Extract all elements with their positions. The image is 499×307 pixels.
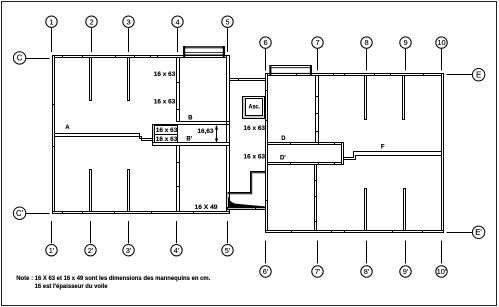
svg-text:16 x 63: 16 x 63 [156,127,178,134]
svg-text:16,63: 16,63 [198,129,215,135]
wall A jog from left wall [55,134,153,141]
grid bubble C [13,52,49,64]
grid bubble 3 [123,16,134,52]
grid bubble E' [447,226,485,238]
svg-text:1: 1 [49,17,53,26]
right block bottom wall [266,231,444,233]
grid bubble 8 [361,37,372,71]
elevator shaft Asc. [243,97,265,119]
interior wall under axis 2 [90,58,92,101]
corridor B top wall [153,122,230,125]
link wall between blocks top [230,79,266,81]
interior wall above axis 9' [404,189,406,231]
right block balcony parapet [269,65,312,76]
grid bubble 6' [260,241,271,278]
corridor B bottom wall [153,143,230,146]
room label B' [186,137,192,143]
grid bubble 5' [222,221,233,256]
svg-text:C: C [17,54,23,63]
svg-text:1': 1' [49,246,55,255]
grid bubble 2 [86,16,97,52]
corridor D top wall [268,143,344,145]
wall F with jog [344,152,442,160]
interior wall under axis 3 [128,58,130,101]
label 16x63 between blocks upper [244,125,266,132]
svg-text:16 x 63: 16 x 63 [244,154,266,161]
grid bubble 9' [400,241,411,278]
interior wall under axis 4 [177,58,180,122]
wall joint ticks [53,56,424,233]
svg-text:Note : 16 X 63 et 16 x 49 sont: Note : 16 X 63 et 16 x 49 sont les dimen… [16,276,210,282]
room label F [381,145,385,151]
grid bubble 1 [46,16,57,52]
svg-text:3: 3 [126,17,130,26]
label 16x63 between blocks lower [244,154,266,161]
right block top wall [266,74,444,76]
svg-text:16 x 63: 16 x 63 [244,125,266,132]
svg-text:9': 9' [403,267,409,276]
grid bubble 9 [400,37,411,71]
svg-text:F: F [381,145,385,151]
room label A [65,125,70,131]
corridor D bottom wall [268,163,344,165]
label 16x63 upper left block [154,71,176,78]
right block right wall [442,74,444,233]
grid bubble 7' [312,241,323,278]
corridor B left end wall [153,125,155,143]
room label B [188,116,193,122]
svg-text:C': C' [16,209,24,218]
interior wall above axis 2' [90,170,92,212]
left block bottom wall [53,212,230,214]
mannequin box 16x63 lower [155,135,178,143]
interior wall under axis 7' [315,165,317,231]
svg-text:8': 8' [364,267,370,276]
note text [16,276,210,290]
grid bubble 3' [123,221,134,256]
svg-text:A: A [65,125,70,131]
dimension arrow 16,63 [198,125,219,143]
svg-text:16 x 63: 16 x 63 [154,71,176,78]
grid bubble 5 [222,16,233,52]
svg-text:D': D' [280,156,286,162]
svg-text:4': 4' [174,246,180,255]
grid bubble 7 [312,37,323,71]
svg-text:16 X 49: 16 X 49 [195,204,219,211]
grid bubble 2' [85,221,96,256]
grid bubble 10' [436,241,447,278]
svg-text:4: 4 [175,17,179,26]
svg-text:16 x 63: 16 x 63 [154,98,176,105]
room label D' [280,156,286,162]
room label D [281,136,286,142]
interior wall under axis 8 [365,76,367,120]
svg-text:5: 5 [225,17,229,26]
grid bubble 10 [436,37,447,71]
svg-text:6': 6' [263,267,269,276]
right block left wall [266,74,268,233]
grid bubble C' [13,207,49,219]
left block balcony parapet [183,46,225,57]
label 16x63 lower left block [154,98,176,105]
grid bubble 4' [171,221,182,256]
svg-text:6: 6 [263,38,267,47]
svg-text:8: 8 [364,38,368,47]
svg-text:7: 7 [315,38,319,47]
svg-text:B: B [188,116,193,122]
svg-text:D: D [281,136,286,142]
svg-text:16 est l'épaisseur du voile: 16 est l'épaisseur du voile [35,284,109,290]
label 16 X 49 [195,204,219,211]
grid bubble 1' [46,221,57,256]
svg-text:5': 5' [225,246,231,255]
interior wall above axis 8' [365,189,367,231]
corridor D end wall [342,143,344,165]
svg-text:Asc.: Asc. [249,105,261,111]
svg-text:7': 7' [315,267,321,276]
mannequin box 16x63 upper [155,126,178,135]
link wall between blocks bottom [228,208,266,210]
left block right wall [227,56,230,214]
grid bubble 6 [260,37,271,71]
svg-text:10: 10 [437,38,445,47]
grid bubble 4 [172,16,183,52]
left block left wall [53,56,55,214]
grid bubble E [447,69,485,81]
svg-text:10': 10' [437,267,447,276]
svg-text:9: 9 [403,38,407,47]
svg-text:16 x 63: 16 x 63 [156,136,178,143]
svg-text:2: 2 [89,17,93,26]
interior wall under axis 7 [316,76,319,143]
svg-text:E': E' [475,228,482,237]
interior wall above axis 3' [128,170,130,212]
stair landing outline [228,172,266,194]
svg-text:B': B' [186,137,192,143]
svg-text:2': 2' [88,246,94,255]
interior wall under axis 4' [177,146,180,212]
left block top wall [53,56,230,58]
svg-text:E: E [476,71,481,80]
svg-text:3': 3' [126,246,132,255]
stair slope wedge [228,194,265,209]
grid bubble 8' [361,241,372,278]
interior wall under axis 9 [403,76,405,120]
